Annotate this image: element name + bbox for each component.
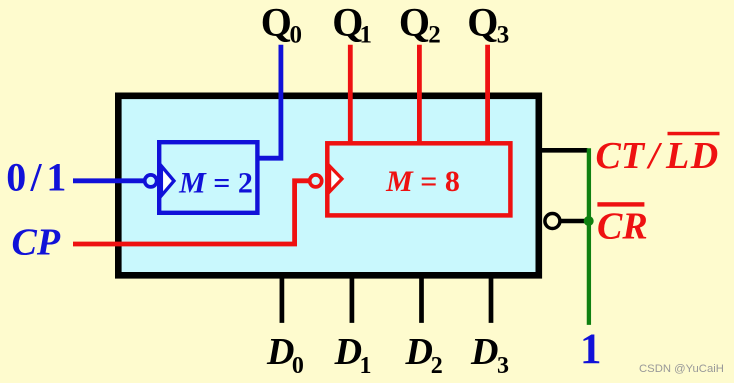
svg-text:CSDN @YuCaiH: CSDN @YuCaiH [639,363,724,375]
wire Q2 [417,45,422,144]
overline CR [597,202,644,206]
svg-text:1: 1 [360,22,373,49]
counter block U1 M=2 [159,142,257,213]
overline LD [668,132,720,136]
wire Q1 [348,45,353,144]
svg-text:D: D [405,331,433,373]
svg-text:D: D [470,331,498,373]
wire D2 [419,276,424,323]
junction dot on net 1 [584,216,594,226]
svg-text:3: 3 [497,353,509,379]
counter block U2 M=8 [327,143,510,215]
wire Q0 from M=2 to top [256,45,281,159]
wire net 1 (green) [587,148,591,325]
svg-text:3: 3 [497,22,510,49]
svg-text:2: 2 [428,22,441,49]
wire D0 [280,276,285,323]
svg-text:/: / [30,154,43,199]
wire CT/LD from IC right edge [541,148,588,153]
svg-text:D: D [334,331,362,373]
svg-text:Q: Q [467,0,498,44]
svg-text:2: 2 [431,353,443,379]
IC body (big box) [118,96,539,275]
svg-text:CP: CP [12,221,61,263]
wire CR to net 1 [561,219,585,223]
dynamic clock edge triangle M=2 [161,166,174,196]
svg-text:M = 2: M = 2 [178,166,253,199]
wire CP input [73,181,309,244]
svg-text:0: 0 [290,22,303,49]
svg-text:CT: CT [596,135,646,177]
svg-text:1: 1 [46,154,66,199]
svg-text:CR: CR [597,205,648,247]
dynamic clock edge triangle M=8 [330,166,342,192]
svg-text:LD: LD [665,135,720,177]
inverter bubble at M=2 clock input [145,175,157,187]
inverter bubble CR [545,214,560,229]
svg-text:0: 0 [292,353,304,379]
svg-text:1: 1 [580,326,602,373]
wire D3 [489,276,494,323]
svg-text:1: 1 [360,353,372,379]
svg-text:Q: Q [261,0,292,44]
svg-text:M = 8: M = 8 [385,165,460,198]
wire Q3 [485,45,490,144]
svg-text:0: 0 [6,154,26,199]
svg-text:Q: Q [399,0,430,44]
wire D1 [350,276,355,323]
svg-text:D: D [266,331,294,373]
inverter bubble at M=8 clock input [310,175,322,187]
wire 0/1 input [73,178,146,183]
